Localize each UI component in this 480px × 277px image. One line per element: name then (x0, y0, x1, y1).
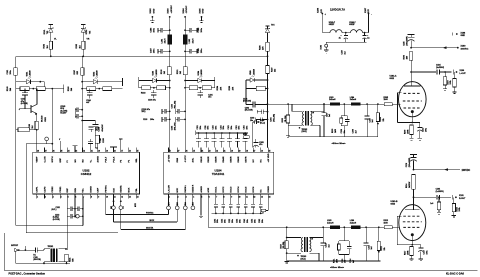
svg-text:4u7: 4u7 (86, 101, 89, 104)
svg-text:C212: C212 (222, 219, 224, 223)
pin 4 U184 bottom (192, 194, 194, 198)
svg-text:DB3R: DB3R (216, 156, 218, 162)
capacitor C206 top cap (252, 122, 254, 148)
ground R217 (409, 258, 413, 260)
svg-text:<Silver Mica>: <Silver Mica> (332, 142, 347, 145)
pin 2 U182 top (44, 148, 46, 153)
svg-text:R200: R200 (243, 134, 247, 136)
svg-text:6: 6 (209, 196, 210, 198)
svg-text:7: 7 (83, 196, 84, 198)
resistor R191 on -15 rail (183, 67, 187, 75)
pin 9 U182 bottom (97, 194, 99, 198)
connector X188 GND (452, 32, 454, 35)
svg-text:C222: C222 (229, 219, 231, 223)
pin 10 U182 top (105, 148, 107, 153)
resistor R188a (87, 87, 96, 91)
svg-text:7: 7 (216, 196, 217, 198)
svg-text:1FS: 1FS (168, 202, 170, 205)
connector X190 L-OUT (452, 70, 454, 75)
svg-text:DB6R: DB6R (238, 156, 240, 162)
svg-text:L/C-UR: L/C-UR (168, 185, 170, 193)
capacitor C231 bank top (221, 132, 223, 134)
pin 12 U184 bottom (252, 194, 254, 198)
pin 8 U184 bottom (222, 194, 224, 198)
svg-text:(100u/400V): (100u/400V) (406, 36, 409, 46)
svg-text:+5 VDD: +5 VDD (168, 154, 170, 162)
zener diode D182 (81, 23, 85, 25)
svg-text:R209: R209 (404, 130, 406, 134)
svg-text:15: 15 (269, 150, 271, 152)
svg-text:1M0: 1M0 (406, 56, 408, 60)
svg-text:C241: C241 (227, 125, 230, 129)
svg-text:2u2mH: 2u2mH (327, 222, 334, 224)
svg-text:X192: X192 (321, 45, 323, 49)
capacitor C251 bank top (237, 132, 239, 134)
svg-text:19: 19 (239, 150, 241, 152)
svg-text:CBL: CBL (136, 187, 138, 192)
svg-text:(DC-CON): (DC-CON) (243, 101, 251, 103)
svg-text:2k2: 2k2 (275, 69, 277, 72)
svg-text:C210: C210 (369, 118, 371, 122)
resistor R185 emitter (35, 121, 38, 129)
svg-text:R182: R182 (76, 44, 78, 49)
capacitor C215 (365, 226, 367, 228)
capacitor C186b (82, 120, 95, 122)
wire lower bus (212, 212, 264, 214)
pin 13 U182 top (128, 148, 130, 153)
svg-text:16: 16 (261, 150, 263, 152)
svg-text:LM329: LM329 (97, 70, 99, 76)
wire main rail (16, 55, 268, 57)
capacitor C217 cathode (420, 245, 422, 248)
svg-text:+15VDC: +15VDC (171, 5, 173, 14)
resistor R205 grid stopper (384, 103, 392, 106)
svg-text:U183: U183 (153, 71, 155, 76)
wire 100VDC lower (413, 169, 415, 171)
svg-text:12VDC/0.7A: 12VDC/0.7A (330, 7, 345, 11)
svg-text:22: 22 (83, 150, 85, 152)
svg-text:47u: 47u (208, 96, 211, 99)
svg-text:100VDC: 100VDC (462, 170, 471, 172)
capacitor C199 floating (89, 126, 94, 128)
pin 7 U184 bottom (215, 194, 217, 198)
svg-text:R181: R181 (69, 258, 71, 262)
wire X184 rail (184, 17, 186, 35)
svg-text:5: 5 (68, 196, 69, 198)
svg-text:1k2: 1k2 (32, 125, 34, 128)
ground C217 (419, 258, 423, 260)
resistor R210 IV (286, 226, 288, 228)
svg-text:10: 10 (239, 196, 241, 198)
svg-text:(UL-29k): (UL-29k) (283, 241, 285, 248)
svg-text:TR181: TR181 (48, 246, 54, 248)
wire pin7 riser (74, 198, 76, 217)
capacitor C193 rail caps row2 (161, 117, 163, 122)
svg-text:NC: NC (253, 159, 255, 163)
wire block5 row (246, 88, 268, 90)
capacitor C221 bank top (213, 132, 215, 134)
svg-text:C211: C211 (205, 125, 207, 129)
svg-text:10n: 10n (250, 120, 253, 122)
pin 14 U182 bottom (135, 194, 137, 198)
svg-text:9: 9 (231, 196, 232, 198)
svg-text:R202: R202 (282, 118, 284, 122)
pin 1 U184 bottom (168, 194, 170, 198)
svg-text:U182: U182 (93, 72, 95, 77)
pin 12 U182 bottom (120, 194, 122, 198)
pin 11 U182 top (113, 148, 115, 153)
resistor R213 grid stopper (384, 226, 392, 229)
svg-text:7V5: 7V5 (89, 31, 91, 34)
svg-text:DCC4: DCC4 (237, 186, 240, 193)
svg-text:/3B6: /3B6 (177, 157, 179, 162)
capacitor C186a (169, 29, 171, 31)
node jumper pin3 (184, 198, 186, 205)
svg-text:15: 15 (137, 150, 139, 152)
svg-text:R192: R192 (141, 92, 146, 94)
resistor R215 load (438, 196, 440, 198)
resistor R187 feeder (81, 68, 84, 76)
ground pin5 AGND (200, 198, 202, 215)
inductor L184 (351, 103, 361, 106)
inductor L185 (330, 226, 340, 229)
node jumper pin2 (176, 198, 178, 205)
svg-text:3: 3 (53, 196, 54, 198)
wire pin8 riser (82, 198, 84, 225)
svg-text:+: + (367, 35, 368, 37)
svg-text:6: 6 (75, 196, 76, 198)
svg-text:(1N-1): (1N-1) (302, 131, 307, 133)
capacitor C262 lower bank (260, 198, 262, 204)
ground R208 (453, 91, 457, 93)
resistor R199 pin9 box (95, 135, 99, 143)
wire screen tie lower (397, 215, 401, 217)
svg-text:C3/E1: C3/E1 (60, 186, 62, 193)
capacitor C203 to node (262, 119, 267, 121)
op-amp U184 TDA1541 body (164, 152, 274, 194)
svg-text:C215: C215 (368, 245, 370, 249)
svg-text:C217: C217 (424, 250, 426, 254)
capacitor C218 (345, 32, 347, 34)
svg-text:(50-CON): (50-CON) (33, 259, 41, 261)
capacitor C201 bank top (198, 132, 200, 134)
wire reg1 out to pin3 (51, 89, 53, 153)
svg-text:R188: R188 (68, 87, 70, 92)
svg-text:25: 25 (61, 150, 63, 152)
pin 3 U182 bottom (51, 194, 53, 198)
wire reg2 row (82, 88, 122, 90)
svg-text:R203: R203 (332, 129, 334, 133)
pin 12 U184 top (252, 148, 254, 153)
svg-text:C181: C181 (7, 70, 9, 75)
svg-text:100n: 100n (246, 126, 248, 130)
capacitor C185 100u/400V (408, 34, 415, 36)
svg-text:GND: GND (461, 35, 466, 37)
svg-text:47u: 47u (259, 143, 262, 146)
svg-text:2n2: 2n2 (372, 119, 374, 122)
capacitor C185b pair (74, 108, 76, 118)
svg-text:5: 5 (201, 196, 202, 198)
diode U185 LED block5 (246, 79, 250, 81)
zener diode D181 (49, 23, 53, 25)
node spdif junction (25, 249, 27, 251)
svg-text:10n: 10n (344, 130, 346, 133)
wire rail2 (268, 103, 331, 105)
svg-text:16: 16 (129, 150, 131, 152)
wire cathode node lower (397, 244, 421, 246)
svg-text:DGND: DGND (90, 186, 92, 193)
svg-text:(DC-CON): (DC-CON) (245, 110, 253, 112)
pin 10 U184 top (237, 148, 239, 153)
svg-text:18: 18 (114, 150, 116, 152)
pin 13 U184 bottom (260, 194, 262, 198)
svg-text:2k2: 2k2 (164, 71, 166, 74)
pin 6 U184 top (207, 148, 209, 153)
capacitor C197 pin8 (90, 144, 92, 148)
capacitor C252 lower bank (252, 198, 254, 204)
svg-text:100n: 100n (154, 48, 156, 53)
svg-text:C+/V2: C+/V2 (44, 156, 46, 163)
svg-text:2n2: 2n2 (328, 244, 330, 247)
svg-text:1k5: 1k5 (79, 45, 81, 48)
capacitor C189a (184, 51, 186, 53)
connector X192 gnd post (325, 42, 327, 44)
resistor R207 load (444, 71, 446, 73)
pin 7 U182 top (82, 148, 84, 153)
diode U183 LED block3 (139, 80, 153, 82)
svg-text:2u2mH: 2u2mH (350, 99, 357, 101)
svg-text:21: 21 (91, 150, 93, 152)
svg-text:12V: 12V (321, 9, 323, 13)
svg-text:DB7R: DB7R (246, 156, 248, 162)
wire pin12 stub (120, 139, 122, 147)
wire RXP riser (66, 198, 68, 249)
svg-text:1n0: 1n0 (430, 203, 433, 205)
resistor R212 (378, 226, 380, 228)
wire X183 rail (169, 17, 171, 35)
svg-text:(PAL-29k): (PAL-29k) (272, 114, 275, 122)
capacitor C191 (199, 90, 201, 93)
capacitor C212 shunt (322, 227, 324, 243)
svg-text:FCLK: FCLK (113, 156, 115, 162)
svg-text:C207: C207 (326, 113, 328, 117)
svg-text:20: 20 (98, 150, 100, 152)
wire -5 into pin3 (184, 150, 186, 152)
svg-text:25V): 25V) (142, 111, 146, 113)
svg-text:POET-DAC , Converter Section: POET-DAC , Converter Section (9, 273, 46, 276)
capacitor C241 bank top (229, 132, 231, 134)
resistor R184 (36, 87, 45, 91)
svg-text:D181: D181 (44, 30, 46, 35)
svg-text:1k00: 1k00 (384, 222, 388, 224)
wire +5 into pin1 (169, 150, 171, 152)
RC network between L183 L184 (343, 103, 345, 105)
svg-text:100n: 100n (231, 126, 233, 130)
pin 5 U184 top (200, 148, 202, 153)
svg-text:VD+: VD+ (83, 188, 85, 193)
op-amp U182 CS8412 body (33, 152, 140, 194)
resistor R182 (82, 41, 85, 49)
svg-text:-5 VCC: -5 VCC (185, 155, 187, 163)
capacitor C207 shunt (323, 103, 325, 105)
resistor R198 (256, 86, 265, 90)
svg-text:4n7: 4n7 (352, 260, 355, 263)
svg-text:12: 12 (254, 196, 256, 198)
ground TR183 left (285, 260, 289, 262)
svg-text:6922F: 6922F (349, 24, 355, 26)
svg-text:NC: NC (261, 159, 263, 163)
svg-text:KL-DAC C-DA6: KL-DAC C-DA6 (446, 273, 465, 276)
svg-text:LM329: LM329 (156, 70, 158, 76)
resistor R196 (266, 42, 269, 51)
wire input loop bottom (16, 225, 83, 227)
resistor R192a (142, 86, 151, 90)
diode U181 LED (16, 81, 27, 83)
pin 14 U184 top (267, 148, 269, 153)
svg-text:100n: 100n (239, 219, 241, 223)
svg-text:BCK: BCK (177, 187, 179, 192)
node jumper pin1 (168, 198, 170, 205)
svg-text:TDA1541: TDA1541 (212, 172, 225, 176)
resistor R186 horizontal (16, 129, 18, 131)
svg-text:X184: X184 (182, 8, 185, 14)
svg-text:C232: C232 (237, 219, 239, 223)
svg-text:7V5: 7V5 (47, 31, 49, 34)
pin 6 U184 bottom (207, 194, 209, 198)
wire input bottom rail (16, 262, 70, 264)
svg-text:X185: X185 (199, 8, 201, 14)
inductor L181 (167, 35, 172, 45)
svg-text:(PAL-29k): (PAL-29k) (173, 100, 176, 108)
svg-text:RXP: RXP (67, 188, 69, 193)
svg-text:4n7: 4n7 (354, 130, 357, 133)
svg-text:100n: 100n (254, 219, 256, 223)
pin 4 U182 top (59, 148, 61, 153)
svg-text:FSYNC: FSYNC (146, 213, 154, 215)
svg-text:2: 2 (45, 196, 46, 198)
capacitor pin6 filt (73, 145, 78, 147)
svg-text:C221: C221 (213, 125, 215, 129)
capacitor C183 (24, 89, 26, 93)
connector SPDIF input (15, 248, 18, 252)
ground R207 (443, 88, 447, 90)
wire block4 row (185, 87, 215, 89)
wire zener to rail (82, 49, 84, 56)
svg-text:C212: C212 (326, 243, 328, 247)
svg-text:U181: U181 (27, 72, 29, 77)
svg-text:DATA L: DATA L (184, 184, 187, 192)
pin 2 U184 top (176, 148, 178, 153)
pin 3 U184 bottom (184, 194, 186, 198)
svg-text:6V-20V: 6V-20V (60, 113, 67, 115)
wire zener chain down (267, 74, 269, 105)
wire spdif gnd side (15, 251, 17, 263)
inductor L186 (351, 226, 361, 229)
svg-text:DB2R: DB2R (208, 156, 210, 162)
svg-text:X182: X182 (150, 8, 152, 14)
svg-text:LM329: LM329 (253, 69, 255, 75)
resistor R197 (267, 56, 269, 65)
inductor heater U184-H (351, 30, 363, 33)
capacitor C211 cathode (419, 123, 421, 128)
svg-text:C208: C208 (341, 129, 343, 133)
resistor R208 out (454, 72, 456, 79)
svg-text:10n: 10n (95, 130, 98, 132)
wire capbank bus (196, 132, 248, 134)
svg-text:C201: C201 (197, 125, 199, 129)
svg-text:18: 18 (246, 150, 248, 152)
svg-text:R196: R196 (260, 45, 262, 50)
svg-text:FSYNC: FSYNC (106, 185, 108, 193)
pin 14 U184 bottom (267, 194, 269, 198)
wire zener to rail (50, 49, 52, 56)
svg-text:R217: R217 (404, 251, 406, 255)
wire AOR down (207, 198, 209, 227)
svg-text:100n: 100n (239, 126, 241, 130)
svg-text:VERF: VERF (37, 156, 39, 162)
inductor heater U183-H (330, 30, 342, 33)
svg-text:100n: 100n (232, 219, 234, 223)
pin 2 U184 bottom (176, 194, 178, 198)
frame bottom (4, 269, 477, 271)
svg-text:DCC5: DCC5 (246, 186, 248, 193)
svg-text:(1N-1): (1N-1) (301, 258, 306, 260)
svg-text:R212: R212 (381, 246, 383, 250)
svg-text:1k00: 1k00 (384, 99, 388, 101)
svg-text:1k00: 1k00 (335, 129, 337, 133)
svg-text:SCPH: SCPH (52, 156, 54, 162)
inductor L182 (183, 35, 188, 45)
ground R216 (452, 215, 456, 217)
svg-text:C209: C209 (353, 129, 355, 133)
svg-text:2: 2 (178, 196, 179, 198)
svg-text:C211: C211 (423, 128, 425, 132)
svg-text:LM329: LM329 (201, 70, 203, 76)
svg-text:8: 8 (91, 196, 92, 198)
svg-text:C198: C198 (100, 138, 102, 142)
svg-text:26: 26 (53, 150, 55, 152)
capacitor C202 to node (263, 111, 267, 113)
svg-text:GND: GND (154, 8, 156, 13)
pin 11 U184 bottom (245, 194, 247, 198)
svg-text:NC: NC (261, 189, 263, 193)
resistor R181 (49, 41, 52, 49)
svg-text:2n2: 2n2 (329, 114, 331, 117)
svg-text:C185: C185 (404, 42, 406, 46)
svg-text:-15VDC: -15VDC (186, 5, 188, 13)
ground R215 (437, 212, 441, 214)
capacitor C184b (89, 89, 91, 93)
svg-text:2u2mH: 2u2mH (350, 222, 357, 224)
svg-text:SCK: SCK (113, 188, 115, 193)
svg-text:10n: 10n (345, 260, 347, 263)
svg-text:1: 1 (169, 196, 170, 198)
svg-text:R-OUT: R-OUT (459, 198, 466, 200)
svg-text:C195: C195 (171, 126, 173, 130)
capacitor C242 lower bank (245, 198, 247, 204)
svg-text:LM329: LM329 (30, 70, 32, 76)
svg-text:R216: R216 (456, 207, 458, 211)
svg-text:DB5R: DB5R (231, 156, 233, 162)
resistor R200 (244, 136, 250, 138)
svg-text:X183: X183 (167, 8, 169, 14)
pin 5 U182 top (66, 148, 68, 153)
ground X182 (150, 20, 154, 22)
svg-text:23: 23 (209, 150, 211, 152)
svg-text:6922F: 6922F (329, 24, 335, 26)
svg-text:100u: 100u (427, 250, 429, 254)
vacuum tube V1b (413, 197, 415, 209)
